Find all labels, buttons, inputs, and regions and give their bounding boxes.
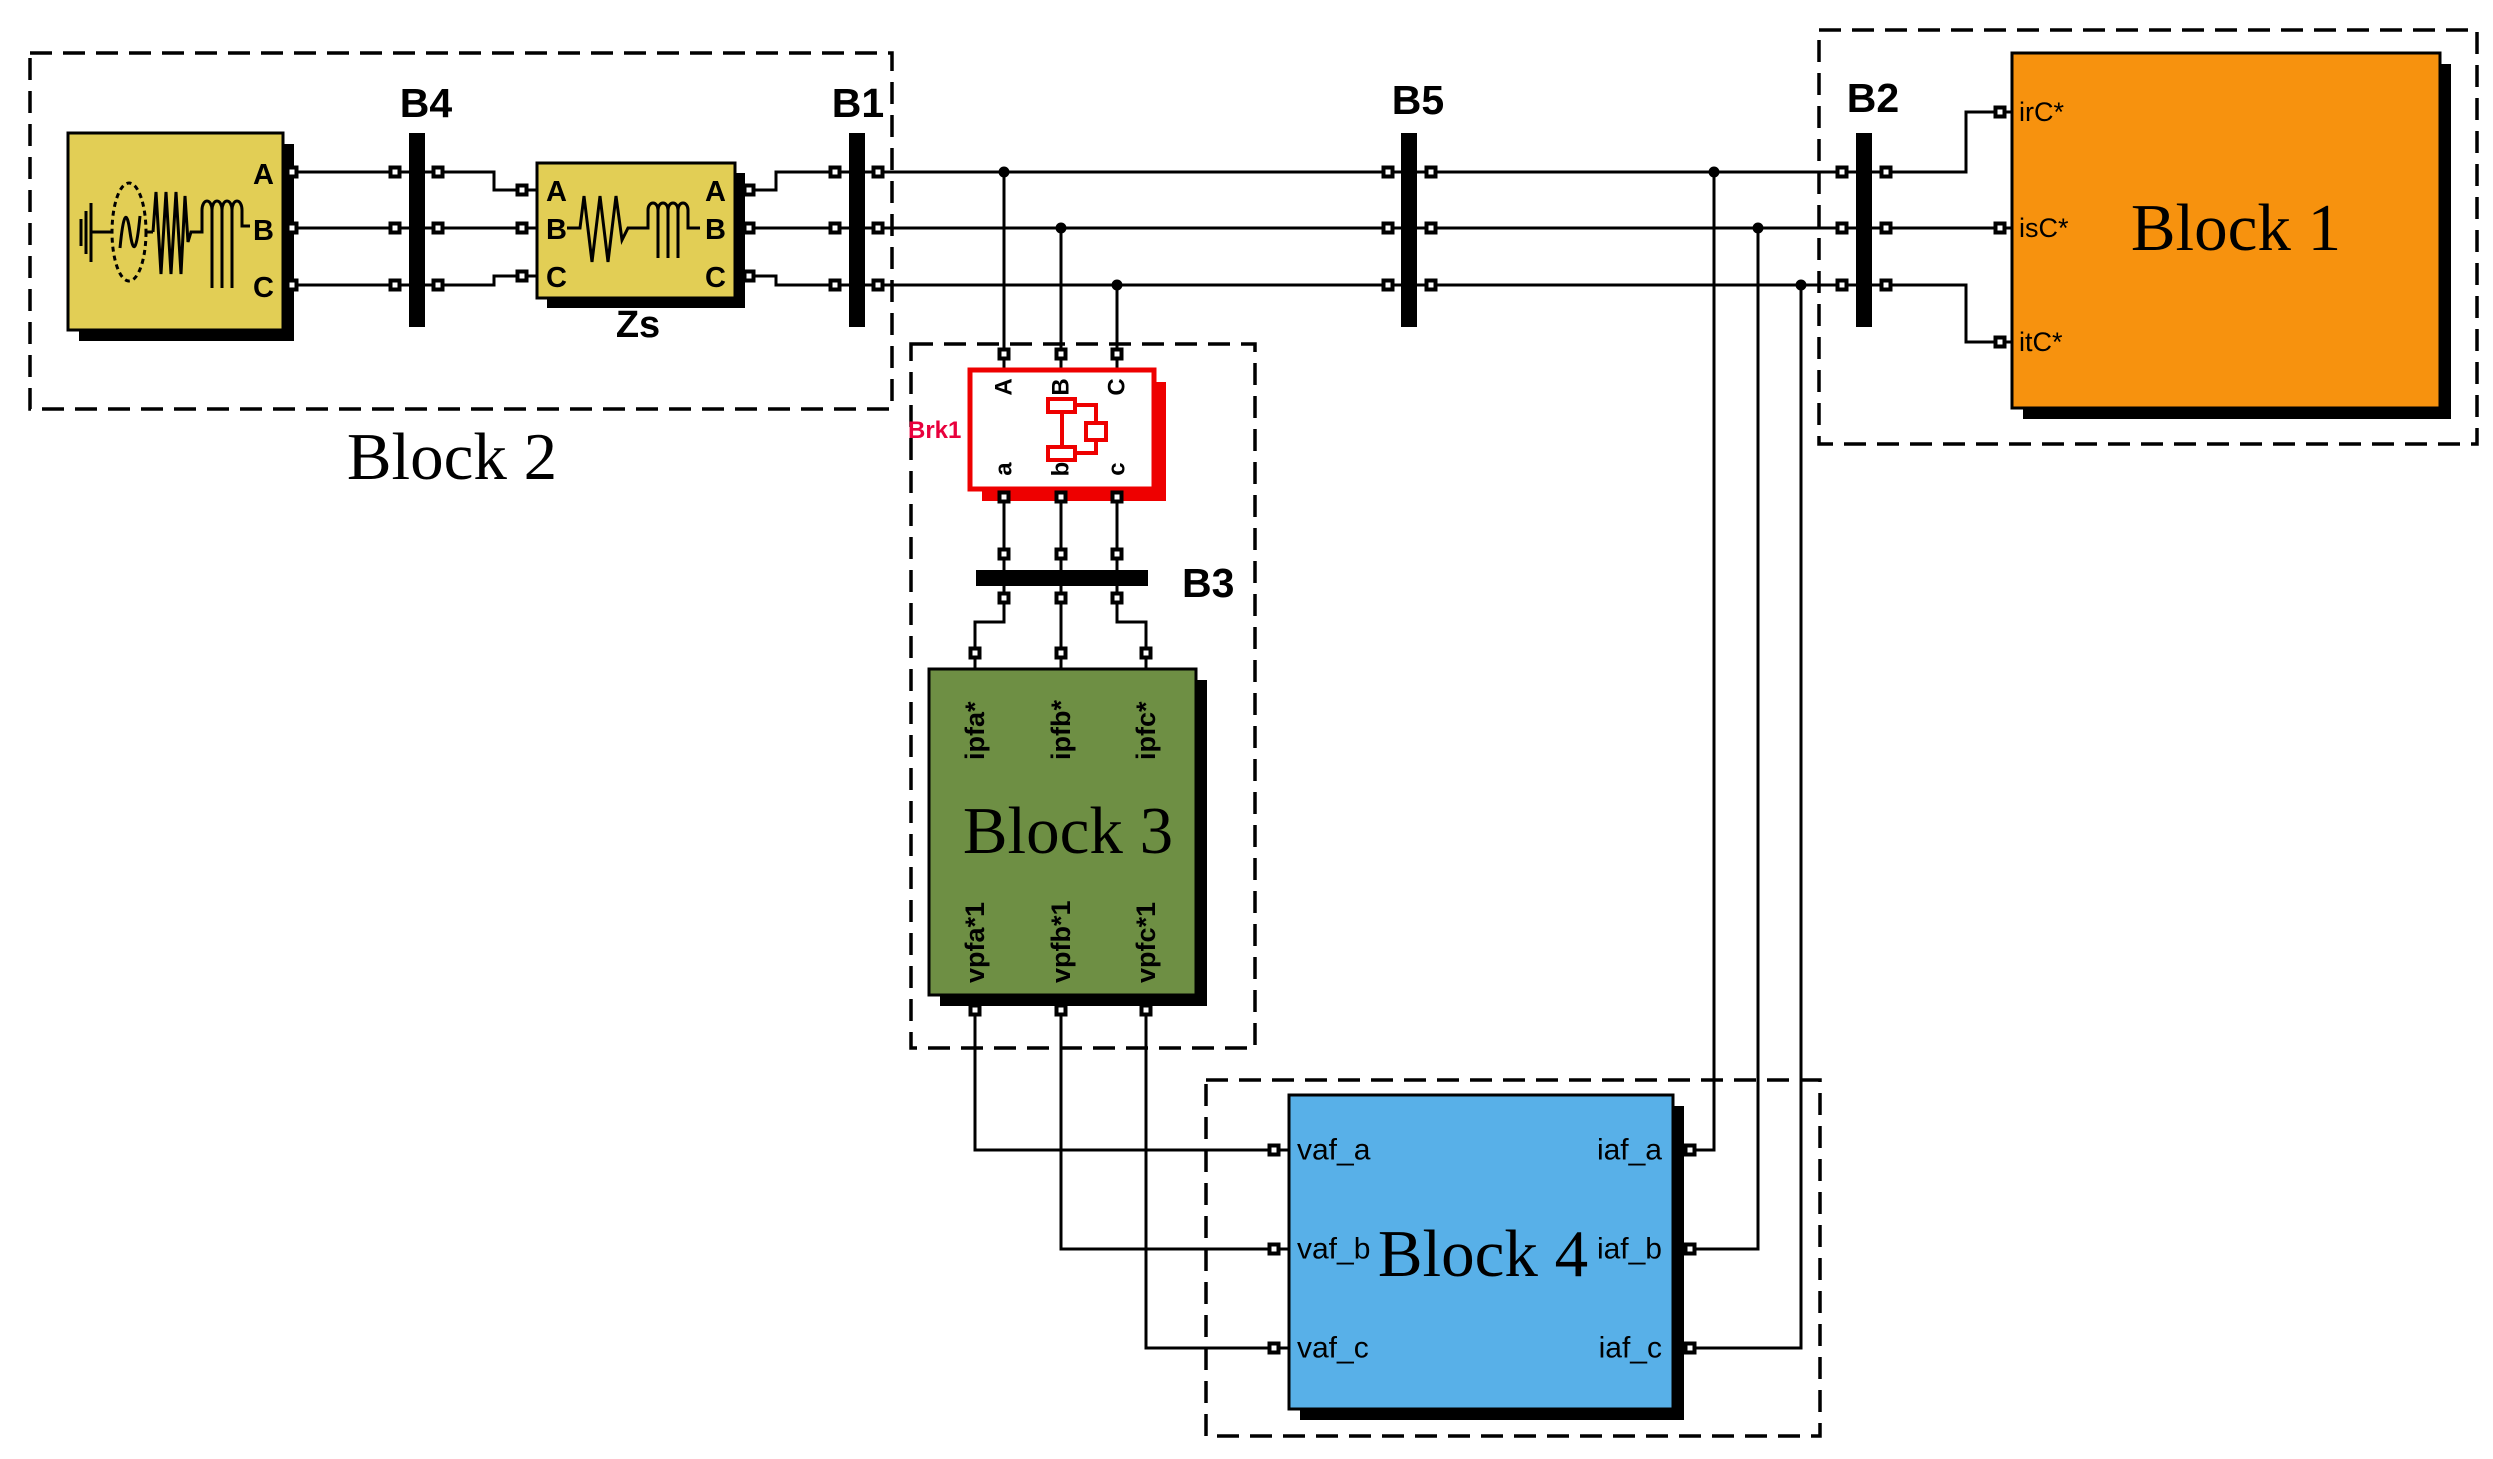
svg-text:vaf_a: vaf_a (1297, 1134, 1371, 1167)
svg-text:Block 2: Block 2 (347, 420, 557, 494)
junction node row A x1004 (999, 167, 1010, 178)
three-phase source block (Block 2 interior) (79, 144, 294, 341)
Block 4 (blue) (1300, 1106, 1684, 1420)
bus bar B5 (1401, 133, 1417, 327)
svg-text:ipfa*: ipfa* (960, 701, 990, 760)
bus bar B2 (1856, 133, 1872, 327)
pins: Block4 left (1270, 1146, 1279, 1155)
svg-text:Block 3: Block 3 (963, 794, 1173, 868)
svg-text:Block 4: Block 4 (1378, 1217, 1588, 1291)
svg-text:A: A (705, 176, 726, 208)
pins: Block3 bottom (971, 1006, 980, 1015)
svg-text:B: B (253, 215, 274, 247)
svg-text:A: A (546, 176, 567, 208)
svg-text:vaf_c: vaf_c (1297, 1332, 1369, 1365)
svg-text:ipfc*: ipfc* (1131, 701, 1161, 760)
breaker Brk1 block (982, 382, 1166, 501)
wire B1 to B5 row A (865, 171, 1401, 174)
svg-text:irC*: irC* (2019, 97, 2064, 127)
svg-text:A: A (991, 378, 1018, 395)
svg-text:ipfb*: ipfb* (1046, 700, 1076, 760)
svg-text:C: C (253, 272, 274, 304)
wire B2 to Block1 itC* (1872, 285, 2012, 342)
bus bar B3 (horizontal) (976, 570, 1148, 586)
impedance block Zs (547, 173, 745, 308)
pins: B2 sides (1838, 168, 1847, 177)
source icon: inductor coil (197, 201, 250, 288)
wire B3 to Block3 ipfa* (975, 586, 1004, 669)
Block 3 (green) (940, 680, 1207, 1006)
svg-text:C: C (546, 262, 567, 294)
wire B1 to B5 row C (865, 284, 1401, 287)
wire B5 to B2 row A (1417, 171, 1856, 174)
dashed box Block 2 (30, 53, 892, 409)
pins: B4 sides (391, 168, 400, 177)
source icon: resistor zigzag (153, 192, 197, 274)
wire B4 to Zs A (425, 172, 537, 190)
dashed box Block 4 (1206, 1080, 1820, 1436)
wire source to B4 row A (283, 171, 409, 174)
svg-text:vpfa*1: vpfa*1 (960, 902, 990, 983)
wire breaker a to B3 (1003, 488, 1006, 570)
pins: Block3 top (971, 649, 980, 658)
wire source to B4 row B (283, 227, 409, 230)
junction node row C x1801 (1796, 280, 1807, 291)
source icon: AC source ellipse (112, 183, 146, 281)
bus bar B1 (849, 133, 865, 327)
pins: breaker bottom (1000, 493, 1009, 502)
wire B3 to Block3 ipfb* (1060, 586, 1063, 669)
dashed box Block 1 (1819, 30, 2477, 444)
wire B1 to B5 row B (865, 227, 1401, 230)
pins: Block1 inputs (1996, 108, 2005, 117)
Block 1 (orange) (2023, 64, 2451, 419)
Zs icon: coil (640, 203, 700, 258)
svg-text:C: C (1104, 378, 1131, 395)
drop wire row A to breaker A (1003, 172, 1006, 370)
wire B3 to Block3 ipfc* (1117, 586, 1146, 669)
pins: Zs sides (518, 186, 527, 195)
wire B5 to B2 row C (1417, 284, 1856, 287)
Zs icon: resistor (567, 196, 640, 262)
svg-text:B1: B1 (832, 80, 884, 126)
wire Zs to B1 A (735, 172, 849, 190)
svg-text:B5: B5 (1392, 77, 1444, 123)
wire source to B4 row C (283, 284, 409, 287)
drop wire row C to breaker C (1116, 285, 1119, 370)
svg-text:a: a (991, 462, 1018, 476)
svg-text:vpfb*1: vpfb*1 (1046, 900, 1076, 983)
source icon: ground (80, 219, 83, 246)
svg-text:iaf_c: iaf_c (1599, 1332, 1662, 1365)
junction node row C x1117 (1112, 280, 1123, 291)
wire B2 to Block1 irC* (1872, 112, 2012, 172)
svg-text:b: b (1048, 462, 1075, 477)
pins: B5 sides (1384, 168, 1393, 177)
wire Block4 iaf_b to bus row B (1673, 228, 1758, 1249)
junction node row B x1758 (1753, 223, 1764, 234)
wire breaker b to B3 (1060, 488, 1063, 570)
bus bar B4 (409, 133, 425, 327)
wire B2 to Block1 isC* (1872, 227, 2012, 230)
svg-text:C: C (705, 262, 726, 294)
pins: breaker top (1000, 350, 1009, 359)
pins: above B3 (1000, 550, 1009, 559)
drop wire row B to breaker B (1060, 228, 1063, 370)
svg-text:iaf_a: iaf_a (1597, 1134, 1662, 1167)
svg-text:Block 1: Block 1 (2131, 191, 2341, 265)
svg-text:B2: B2 (1847, 75, 1899, 121)
svg-text:vpfc*1: vpfc*1 (1131, 902, 1161, 983)
wire Block3 vpfb*1 to Block4 vaf_b (1061, 995, 1289, 1249)
junction node row B x1061 (1056, 223, 1067, 234)
pins: B1 sides (831, 168, 840, 177)
pins: Block4 right (1686, 1146, 1695, 1155)
wire B4 to Zs B (425, 227, 537, 230)
breaker icon (1048, 399, 1075, 412)
svg-text:c: c (1104, 462, 1131, 475)
svg-text:Brk1: Brk1 (908, 417, 961, 444)
wire Zs to B1 C (735, 276, 849, 285)
svg-text:B4: B4 (400, 80, 453, 126)
svg-text:isC*: isC* (2019, 213, 2069, 243)
junction node row A x1714 (1709, 167, 1720, 178)
pins: below B3 (1000, 594, 1009, 603)
svg-text:Zs: Zs (616, 304, 660, 346)
svg-text:B: B (1048, 378, 1075, 395)
wire Zs to B1 B (735, 227, 849, 230)
wire B5 to B2 row B (1417, 227, 1856, 230)
svg-text:B: B (705, 214, 726, 246)
wire Block3 vpfc*1 to Block4 vaf_c (1146, 995, 1289, 1348)
svg-text:itC*: itC* (2019, 327, 2063, 357)
svg-text:B3: B3 (1182, 560, 1234, 606)
svg-text:A: A (253, 159, 274, 191)
svg-text:vaf_b: vaf_b (1297, 1233, 1370, 1266)
pins: source outputs (288, 168, 297, 177)
wire B4 to Zs C (425, 276, 537, 285)
wire breaker c to B3 (1116, 488, 1119, 570)
dashed box middle (Brk1/B3/Block 3) (911, 344, 1255, 1048)
svg-text:iaf_b: iaf_b (1597, 1233, 1662, 1266)
svg-text:B: B (546, 214, 567, 246)
wire Block4 iaf_a to bus row A (1673, 172, 1714, 1150)
wire Block3 vpfa*1 to Block4 vaf_a (975, 995, 1289, 1150)
wire Block4 iaf_c to bus row C (1673, 285, 1801, 1348)
